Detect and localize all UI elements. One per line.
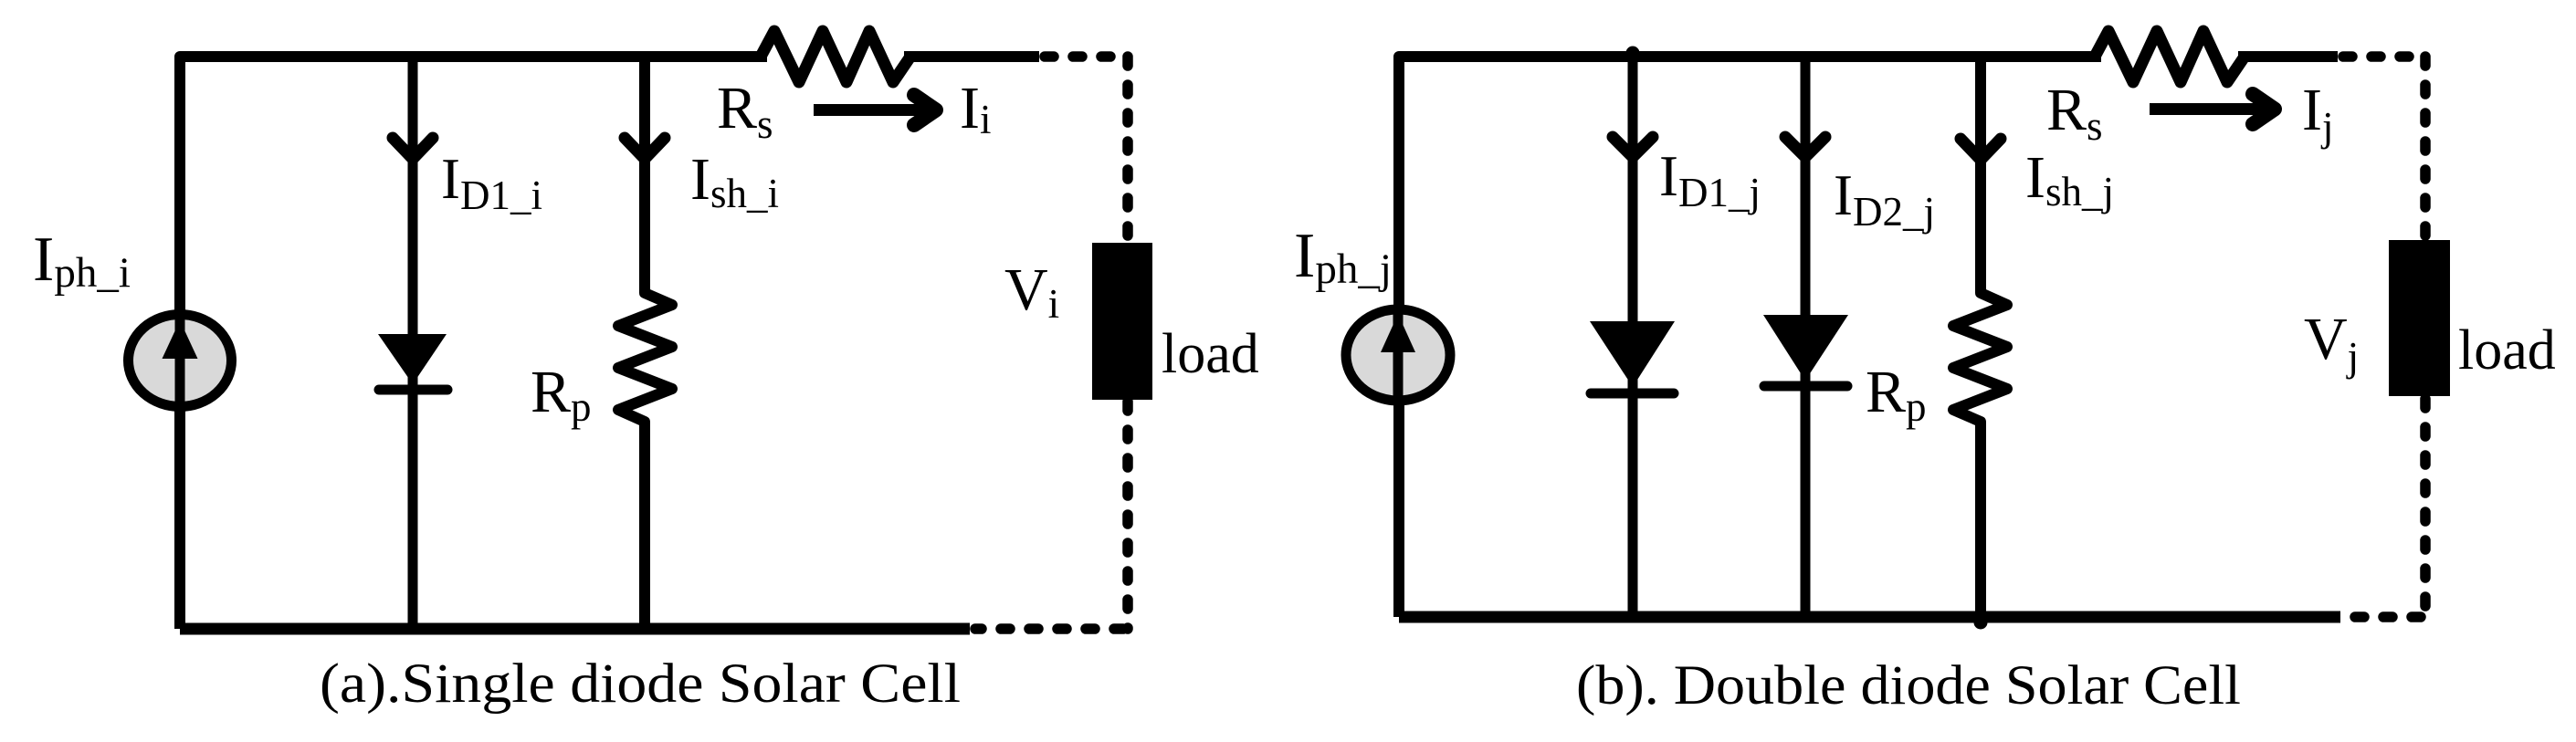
dashed wire right lower (b)	[2420, 399, 2431, 617]
current source Iph_i circle	[129, 315, 232, 407]
diode D1 (a) cathode bar	[379, 385, 447, 395]
svg-text:Rs: Rs	[2046, 77, 2103, 149]
svg-text:Iph_i: Iph_i	[33, 225, 131, 297]
wire left+top rail circuit (a)	[180, 57, 767, 629]
current source Iph_j arrow	[1393, 305, 1404, 405]
dashed wire right upper (b)	[2420, 57, 2431, 240]
dashed wire bottom (b)	[2346, 611, 2421, 622]
diode D1 (b)	[1590, 321, 1675, 387]
svg-text:Ish_i: Ish_i	[690, 146, 779, 216]
current arrow Ij	[2150, 103, 2266, 115]
svg-text:Ij: Ij	[2302, 77, 2334, 150]
svg-text:Vi: Vi	[1004, 256, 1059, 327]
svg-text:ID1_i: ID1_i	[441, 147, 542, 218]
diode branch 1 wire (b)	[1628, 57, 1638, 617]
svg-text:Rp: Rp	[1866, 359, 1927, 430]
wire bottom (a)	[180, 623, 970, 635]
dashed wire bottom (a)	[975, 623, 1123, 634]
diode branch 2 wire (b)	[1801, 57, 1811, 617]
diode D2 (b) cathode bar	[1764, 381, 1847, 392]
load (a)	[1092, 243, 1152, 400]
svg-text:Rp: Rp	[531, 359, 592, 430]
current source Iph_j circle	[1346, 309, 1450, 401]
resistor Rs (b) zigzag	[2095, 31, 2245, 82]
svg-text:ID2_j: ID2_j	[1834, 163, 1935, 235]
arrow Ish_j	[1961, 139, 2001, 160]
resistor Rs (a) zigzag	[761, 31, 910, 82]
diode branch wire (a)	[408, 57, 418, 629]
svg-text:(b). Double diode Solar Cell: (b). Double diode Solar Cell	[1576, 655, 2241, 716]
load (b)	[2389, 240, 2450, 396]
wire bottom (b)	[1399, 611, 2340, 623]
dashed wire right upper (a)	[1122, 57, 1133, 243]
wire top-right solid segment (b)	[2238, 51, 2338, 62]
diode D1 (a)	[378, 334, 447, 384]
diode D1 (b) cathode bar	[1591, 389, 1674, 399]
svg-text:Ish_j: Ish_j	[2025, 144, 2114, 214]
arrow ID2_j	[1785, 137, 1825, 157]
dashed wire top (b)	[2343, 51, 2425, 62]
svg-text:load: load	[1162, 323, 1259, 385]
svg-text:ID1_j: ID1_j	[1659, 144, 1761, 215]
dashed wire right lower (a)	[1122, 402, 1133, 629]
svg-text:Ii: Ii	[960, 75, 992, 142]
resistor Rp branch (b)	[1953, 57, 2007, 617]
svg-text:(a).Single diode Solar Cell: (a).Single diode Solar Cell	[320, 653, 961, 715]
wire left+top rail circuit (b)	[1399, 57, 2101, 617]
svg-text:Rs: Rs	[717, 75, 773, 147]
diode D2 (b)	[1763, 315, 1848, 381]
resistor Rp branch (a)	[618, 57, 672, 629]
arrow ID1_i	[393, 138, 433, 159]
arrow Ish_i	[625, 138, 665, 159]
current source Iph_i arrow	[175, 310, 185, 411]
wire top-right solid segment (a)	[904, 51, 1039, 62]
svg-text:Iph_j: Iph_j	[1294, 221, 1392, 293]
junction dot bottom branch 3 (b)	[1974, 616, 1988, 630]
junction dot top branch 1 (b)	[1626, 47, 1640, 60]
dashed wire top (a)	[1045, 51, 1128, 62]
svg-text:load: load	[2458, 319, 2556, 381]
current arrow Ii	[814, 104, 928, 116]
svg-text:Vj: Vj	[2304, 306, 2359, 380]
arrow ID1_j	[1613, 137, 1653, 157]
